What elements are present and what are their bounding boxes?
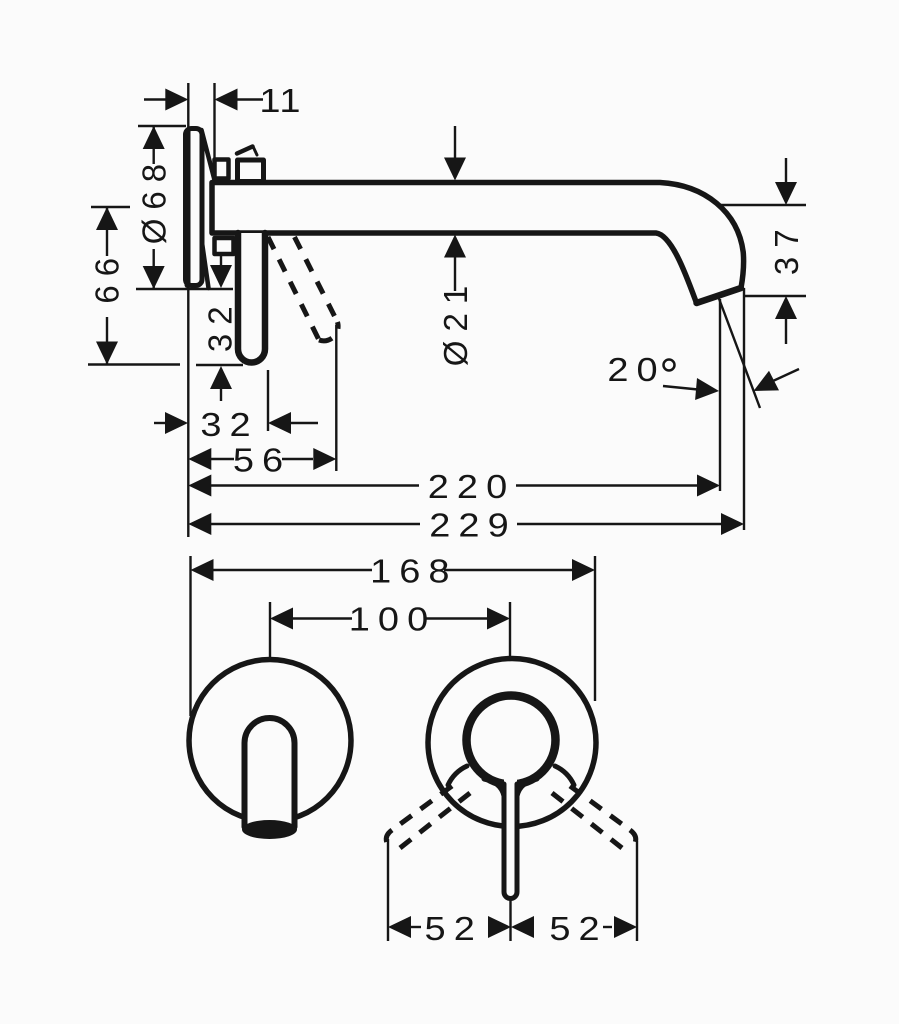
svg-text:52: 52: [425, 910, 483, 947]
svg-text:11: 11: [259, 82, 302, 119]
svg-text:32: 32: [202, 297, 239, 352]
svg-text:52: 52: [549, 910, 607, 947]
svg-text:66: 66: [89, 249, 126, 304]
svg-text:Ø68: Ø68: [136, 155, 173, 244]
svg-text:32: 32: [200, 406, 258, 443]
svg-text:Ø21: Ø21: [437, 277, 474, 366]
svg-text:229: 229: [429, 507, 516, 544]
svg-text:56: 56: [233, 442, 291, 479]
svg-text:220: 220: [428, 468, 515, 505]
svg-text:37: 37: [768, 220, 805, 275]
svg-text:100: 100: [349, 601, 436, 638]
svg-text:20: 20: [607, 351, 665, 388]
svg-text:168: 168: [370, 553, 457, 590]
